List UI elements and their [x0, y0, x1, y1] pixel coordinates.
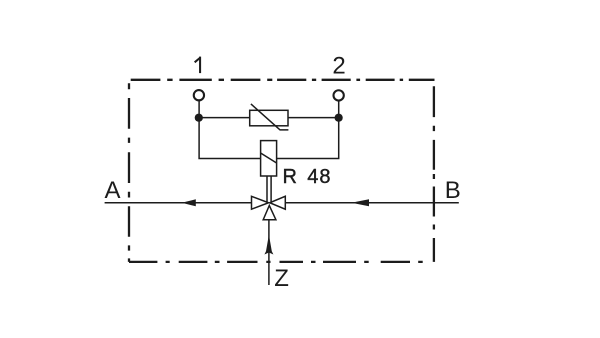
svg-text:R: R [283, 166, 297, 188]
svg-text:A: A [104, 177, 120, 204]
svg-text:B: B [445, 177, 461, 204]
svg-text:48: 48 [307, 166, 331, 188]
svg-text:Z: Z [274, 265, 289, 292]
svg-text:2: 2 [332, 53, 345, 80]
